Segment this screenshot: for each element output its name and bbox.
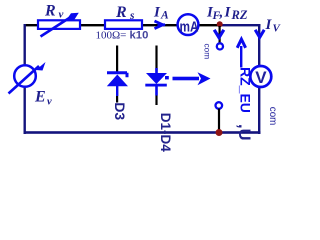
wire: bottom rail (24, 131, 261, 134)
wire: right vertical branch (V meter to bottom rail) (258, 88, 260, 135)
diode D1-D4 bottom stem blue (155, 87, 158, 96)
diode D3 (zener) top lead (116, 46, 118, 72)
svg-text:I: I (153, 5, 161, 21)
resistor Rv wiper arrowhead (66, 13, 79, 21)
svg-text:v: v (59, 9, 64, 21)
diode D1-D4 cathode bar (145, 84, 167, 87)
diode D3 triangle (pointing up) (107, 75, 128, 87)
arrow down toward com terminal (214, 30, 224, 38)
svg-text:mA: mA (180, 19, 199, 36)
svg-text:RZ: RZ (231, 8, 248, 22)
diode D1-D4 bottom stem black (155, 96, 157, 106)
wire: stem from top node down to com terminal (219, 26, 221, 43)
svg-text:v: v (47, 97, 52, 108)
wire: top rail segment from top-left corner to Rv (24, 24, 39, 26)
wire: top rail segment from Rs to mA meter (143, 24, 178, 26)
wire: top rail segment from node junction to top-right corner (221, 24, 260, 26)
wire: stem from bottom terminal to bottom rail (218, 109, 220, 132)
current arrow Iv (down) on right branch (255, 30, 264, 38)
diode D3 bottom stem blue (116, 86, 118, 96)
ammeter mA circle (178, 14, 199, 35)
wire: left vertical branch (top part, corner to Ev source) (24, 24, 26, 66)
wire: top rail segment from mA meter to node junction (199, 24, 219, 26)
resistor Rv wiper arrow diagonal (41, 18, 71, 37)
wire: left vertical branch (Ev source to bottom rail) (24, 87, 26, 134)
node junction dot (top) (217, 21, 223, 27)
svg-text:com: com (202, 44, 212, 60)
terminal ring (bottom) (216, 102, 223, 109)
svg-text:D3: D3 (112, 102, 128, 120)
diode D1-D4 top lead (155, 46, 157, 71)
svg-text:,: , (219, 5, 224, 21)
svg-text:s: s (129, 10, 135, 22)
current arrow IA shaft dash (158, 23, 166, 26)
source Ev arrowhead (36, 62, 46, 71)
svg-text:,U: ,U (235, 124, 253, 141)
diode D1-D4 triangle (pointing down) (146, 73, 167, 84)
big arrow dash (165, 76, 169, 79)
voltage arrow up (URZ) (240, 46, 242, 68)
svg-text:D1-D4: D1-D4 (158, 113, 173, 153)
big arrow head (198, 72, 211, 85)
svg-text:R: R (44, 3, 56, 20)
svg-text:V: V (273, 23, 282, 35)
resistor Rv (variable) box (38, 20, 80, 29)
diode D3 bottom stem black (116, 96, 118, 103)
svg-text:A: A (160, 10, 169, 22)
svg-text:I: I (224, 5, 232, 21)
source Ev diagonal arrow (9, 66, 40, 94)
svg-text:com: com (267, 107, 278, 126)
svg-text:E: E (34, 89, 46, 106)
wire: top rail segment from Rv to Rs (80, 24, 105, 26)
terminal ring (top com) (217, 43, 223, 49)
svg-text:V: V (255, 68, 267, 87)
node junction dot (bottom) (216, 129, 223, 136)
diode D1-D4 top stub blue (155, 68, 158, 73)
svg-text:100Ω=: 100Ω= (96, 29, 127, 41)
current arrow IA on wire (155, 21, 163, 29)
source Ev circle (14, 65, 36, 87)
svg-text:k10: k10 (130, 29, 149, 41)
big arrow shaft (173, 77, 200, 81)
diode D3 cathode bar with zener tick (107, 73, 127, 78)
wire: right vertical branch (corner to V meter) (258, 24, 260, 67)
voltmeter V circle (250, 66, 271, 87)
svg-text:RZ_EU: RZ_EU (238, 67, 254, 113)
svg-text:R: R (115, 4, 127, 21)
resistor Rs box (105, 20, 142, 29)
svg-text:I: I (265, 17, 273, 33)
